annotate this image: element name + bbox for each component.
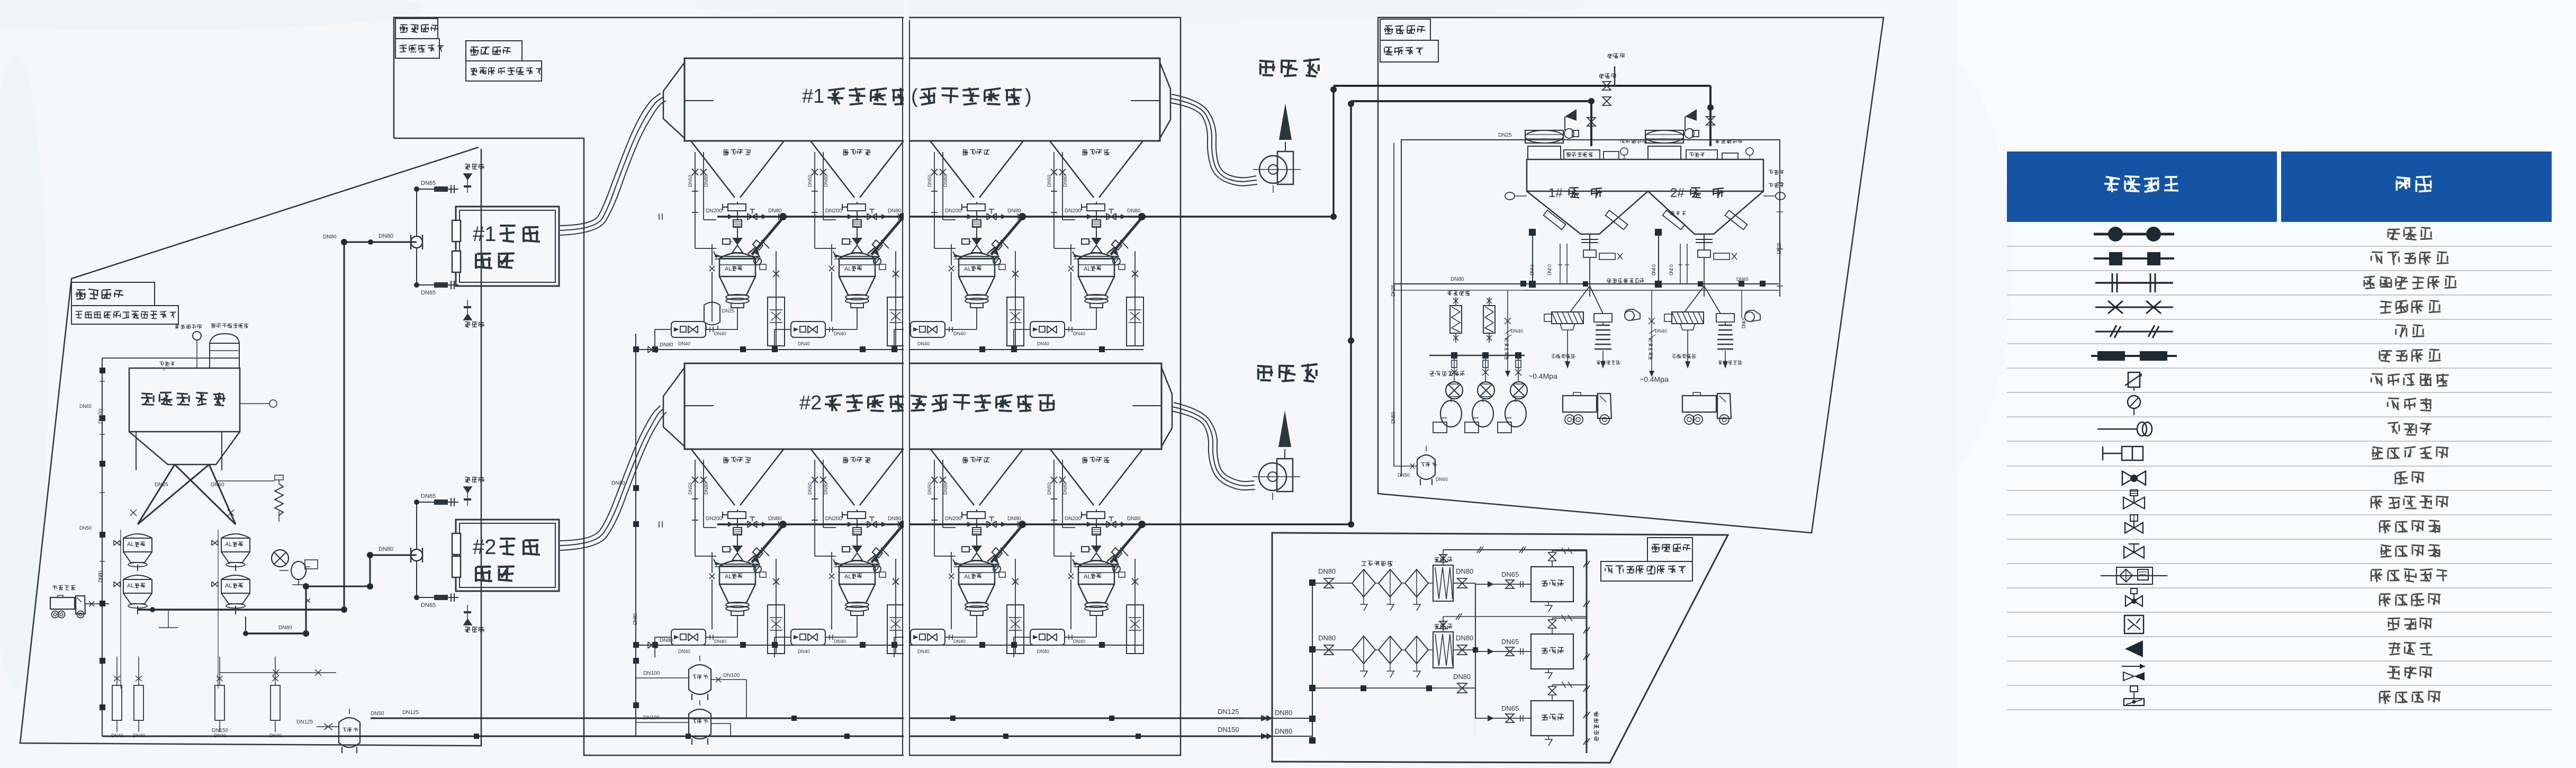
svg-text:DN80: DN80 — [660, 342, 673, 348]
svg-text:DN200: DN200 — [825, 208, 842, 214]
svg-text:DN80: DN80 — [611, 480, 625, 486]
svg-text:DN80: DN80 — [1318, 567, 1336, 575]
svg-text:~0.4Mpa: ~0.4Mpa — [1528, 372, 1557, 380]
svg-text:DN40: DN40 — [1511, 328, 1523, 334]
svg-text:DN80: DN80 — [768, 208, 782, 214]
svg-text:DN80: DN80 — [278, 625, 292, 631]
svg-text:DN80: DN80 — [1275, 727, 1292, 735]
svg-text:DN80: DN80 — [1453, 673, 1471, 681]
svg-text:~0.4Mpa: ~0.4Mpa — [1640, 375, 1669, 383]
svg-text:DN65: DN65 — [1501, 704, 1519, 712]
svg-text:DN125: DN125 — [402, 710, 419, 716]
svg-text:DN65: DN65 — [421, 602, 436, 609]
svg-text:DN80: DN80 — [888, 516, 902, 522]
svg-text:(: ( — [911, 85, 918, 108]
svg-text:DN200: DN200 — [945, 516, 962, 522]
svg-text:0: 0 — [98, 570, 104, 574]
svg-text:0: 0 — [98, 408, 104, 412]
svg-text:DN200: DN200 — [1065, 516, 1082, 522]
svg-text:AL: AL — [225, 541, 232, 548]
svg-text:DN50: DN50 — [371, 711, 384, 717]
svg-text:DN150: DN150 — [212, 728, 229, 734]
svg-text:DN25: DN25 — [1498, 132, 1512, 138]
svg-text:DN200: DN200 — [706, 208, 723, 214]
svg-text:DN200: DN200 — [706, 516, 723, 522]
svg-text:DN50: DN50 — [1398, 472, 1410, 478]
svg-text:DN80: DN80 — [1275, 709, 1292, 717]
svg-text:DN100: DN100 — [723, 673, 740, 678]
svg-text:AL: AL — [127, 541, 134, 548]
svg-text:#2: #2 — [473, 535, 497, 559]
svg-text:AL: AL — [127, 583, 134, 589]
svg-text:4: 4 — [1529, 267, 1535, 270]
svg-text:DN80: DN80 — [1318, 634, 1336, 642]
svg-text:DN80: DN80 — [660, 638, 673, 644]
svg-text:DN65: DN65 — [1501, 638, 1519, 646]
svg-text:DN50: DN50 — [79, 525, 92, 531]
svg-text:0: 0 — [1391, 412, 1397, 415]
svg-text:5: 5 — [1391, 284, 1397, 288]
svg-text:5: 5 — [1777, 242, 1782, 245]
svg-text:0: 0 — [1529, 264, 1535, 267]
svg-text:DN80: DN80 — [1127, 208, 1141, 214]
svg-text:DN60: DN60 — [211, 482, 224, 488]
svg-text:DN150: DN150 — [1218, 726, 1239, 734]
svg-text:): ) — [1025, 85, 1032, 108]
svg-text:DN200: DN200 — [945, 208, 962, 214]
svg-text:2: 2 — [1547, 267, 1552, 270]
svg-text:DN200: DN200 — [825, 516, 842, 522]
svg-text:AL: AL — [225, 583, 232, 589]
svg-text:DN80: DN80 — [1007, 516, 1021, 522]
svg-text:DN125: DN125 — [296, 719, 313, 725]
svg-text:DN65: DN65 — [1436, 477, 1448, 482]
svg-text:0: 0 — [1669, 264, 1674, 267]
svg-text:4: 4 — [1651, 267, 1656, 270]
svg-text:DN65: DN65 — [421, 180, 436, 186]
svg-text:DN80: DN80 — [768, 516, 782, 522]
svg-text:1#: 1# — [1548, 186, 1563, 200]
svg-text:DN125: DN125 — [1218, 708, 1239, 716]
svg-text:DN25: DN25 — [722, 308, 734, 314]
svg-text:DN100: DN100 — [643, 715, 660, 721]
svg-text:0: 0 — [1547, 264, 1552, 267]
svg-text:#1: #1 — [473, 222, 497, 246]
svg-text:DN80: DN80 — [1456, 634, 1473, 642]
svg-text:0: 0 — [633, 613, 638, 616]
svg-text:DN80: DN80 — [1451, 276, 1464, 282]
svg-text:DN200: DN200 — [1065, 208, 1082, 214]
svg-text:DN80: DN80 — [1456, 567, 1473, 575]
svg-text:2: 2 — [1669, 267, 1674, 270]
svg-text:DN65: DN65 — [79, 404, 92, 409]
svg-text:0: 0 — [1651, 264, 1656, 267]
svg-text:DN80: DN80 — [379, 233, 393, 239]
svg-text:DN65: DN65 — [421, 290, 436, 296]
svg-text:DN80: DN80 — [379, 546, 393, 552]
svg-text:6: 6 — [1741, 320, 1746, 323]
svg-text:DN80: DN80 — [888, 208, 902, 214]
svg-text:DN100: DN100 — [643, 671, 660, 676]
svg-text:DN80: DN80 — [323, 234, 337, 240]
svg-text:2#: 2# — [1670, 186, 1685, 200]
svg-text:#1: #1 — [802, 85, 824, 108]
svg-text:DN65: DN65 — [1501, 570, 1519, 578]
svg-text:DN40: DN40 — [1655, 328, 1667, 334]
svg-text:DN80: DN80 — [1127, 516, 1141, 522]
svg-text:#2: #2 — [799, 392, 822, 414]
svg-text:DN80: DN80 — [1007, 208, 1021, 214]
svg-text:DN25: DN25 — [155, 482, 168, 488]
svg-text:DN65: DN65 — [421, 493, 436, 499]
